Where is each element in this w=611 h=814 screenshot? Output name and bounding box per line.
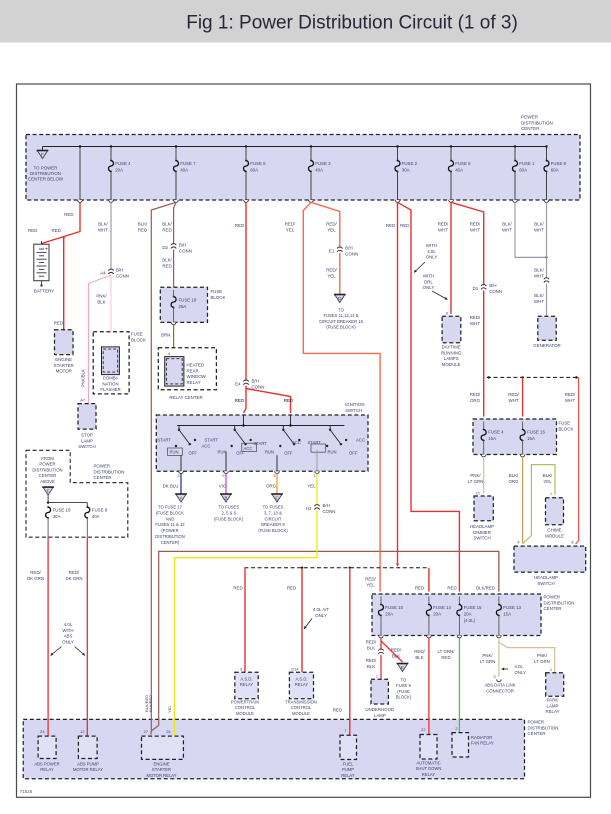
svg-text:DAYTIME: DAYTIME <box>442 345 461 350</box>
wire PNK/LT GRN branch to park lamp relay <box>499 642 555 672</box>
svg-text:AUTOMATIC: AUTOMATIC <box>416 761 440 766</box>
svg-text:25A: 25A <box>179 304 187 309</box>
svg-text:YEL: YEL <box>366 582 375 587</box>
to power distribution center below connector triangle <box>37 147 49 159</box>
svg-text:MODULE: MODULE <box>545 533 564 538</box>
svg-text:FUEL: FUEL <box>343 762 354 767</box>
svg-text:BLK/: BLK/ <box>534 268 544 273</box>
fuse 4 15A <box>481 422 504 457</box>
svg-text:OFF: OFF <box>284 451 293 456</box>
svg-text:MOTOR RELAY: MOTOR RELAY <box>146 773 176 778</box>
wire RED/ORG below D1 to fuse 4 (fuse block) <box>470 290 484 416</box>
wire RED/YEL from fuse 3 to fuse 10 <box>285 202 380 591</box>
svg-text:60A: 60A <box>519 167 527 172</box>
svg-text:BLK: BLK <box>97 299 105 304</box>
svg-text:21: 21 <box>476 491 480 496</box>
svg-text:CENTER: CENTER <box>528 731 546 736</box>
svg-text:OFF: OFF <box>349 451 358 456</box>
note 4.0L A/T ONLY <box>304 607 329 629</box>
svg-text:BLK: BLK <box>415 655 423 660</box>
svg-text:9: 9 <box>222 473 224 478</box>
wire RED to engine starter motor <box>54 238 64 330</box>
svg-text:WHT: WHT <box>438 227 448 232</box>
svg-text:7: 7 <box>344 728 346 733</box>
fuse FUSE 5 40A (power distribution center) <box>449 145 472 202</box>
drawing number 71525 <box>20 789 33 794</box>
svg-text:FUSE 15: FUSE 15 <box>527 430 545 435</box>
headlamp dimmer switch <box>470 491 494 541</box>
wire YEL to engine starter motor relay <box>167 511 317 736</box>
svg-text:FUSE 3: FUSE 3 <box>315 161 331 166</box>
svg-text:(POWER: (POWER <box>161 528 178 533</box>
svg-text:2: 2 <box>177 473 179 478</box>
svg-text:YEL: YEL <box>286 227 295 232</box>
wire PNK/BLK to stop lamp switch <box>81 275 112 404</box>
wire BLK/RED branch from relay pin 27 to fuse 13 <box>148 551 499 731</box>
connector triangle B <box>214 494 244 521</box>
svg-text:DIMMER: DIMMER <box>473 530 491 535</box>
svg-text:BLK: BLK <box>367 645 375 650</box>
wire RED/BLK below connector <box>366 655 381 679</box>
svg-text:4.0L: 4.0L <box>515 664 524 669</box>
svg-text:F: F <box>41 152 44 157</box>
svg-text:DISTRIBUTION: DISTRIBUTION <box>32 467 62 472</box>
svg-text:SWITCH: SWITCH <box>537 581 554 586</box>
fuel pump relay <box>340 728 357 778</box>
svg-text:FUSES 11 & 12: FUSES 11 & 12 <box>155 522 185 527</box>
svg-text:4.0L: 4.0L <box>64 622 73 627</box>
svg-text:DK GRN: DK GRN <box>65 576 82 581</box>
wire RED fuse 2 (4.0L) to fuse 15 <box>398 202 460 591</box>
wire RED battery feed <box>28 202 80 243</box>
svg-text:B/H: B/H <box>489 283 496 288</box>
svg-text:RED: RED <box>441 655 450 660</box>
svg-text:WITH: WITH <box>62 628 73 633</box>
svg-text:C: C <box>275 495 278 500</box>
svg-text:COMBI-: COMBI- <box>103 376 119 381</box>
svg-text:LT GRN: LT GRN <box>468 479 484 484</box>
fuse 18 25A <box>171 290 197 325</box>
svg-text:SWITCH: SWITCH <box>78 444 95 449</box>
connector triangle F from PDC above <box>42 487 54 504</box>
note WITH DRL ONLY <box>423 274 448 300</box>
svg-text:RED: RED <box>386 223 395 228</box>
automatic shut down relay <box>416 727 442 777</box>
svg-text:A.S.D.: A.S.D. <box>295 677 307 682</box>
wire BLK/YEL headlamp switch to chime module <box>523 465 555 544</box>
svg-text:OFF: OFF <box>189 451 198 456</box>
svg-text:D1: D1 <box>473 286 479 291</box>
park lamp relay <box>545 667 563 714</box>
headlamp switch <box>514 540 586 586</box>
svg-text:FUSE: FUSE <box>211 289 223 294</box>
svg-text:UNDERHOOD: UNDERHOOD <box>365 707 394 712</box>
svg-text:RED/: RED/ <box>285 222 296 227</box>
svg-text:RED/: RED/ <box>30 570 41 575</box>
dashed distribution bus <box>244 567 429 569</box>
chime module <box>545 492 564 539</box>
svg-text:B: B <box>225 495 228 500</box>
svg-text:RED: RED <box>235 398 244 403</box>
fuse block (fuse 18) box <box>160 287 225 322</box>
svg-text:CENTER: CENTER <box>521 126 540 131</box>
svg-text:LT GRN: LT GRN <box>480 659 496 664</box>
svg-text:CONTROL: CONTROL <box>235 705 256 710</box>
relay center box <box>158 348 216 400</box>
svg-text:BLK/: BLK/ <box>98 222 108 227</box>
svg-text:PNK/: PNK/ <box>482 653 493 658</box>
svg-text:B/H: B/H <box>179 243 186 248</box>
svg-text:FUSE 4: FUSE 4 <box>115 161 131 166</box>
svg-text:40A: 40A <box>315 167 323 172</box>
svg-text:15A: 15A <box>527 436 535 441</box>
underhood lamp <box>365 674 394 718</box>
svg-text:D14: D14 <box>291 667 299 672</box>
svg-text:60A: 60A <box>551 167 559 172</box>
connector triangle C <box>258 494 288 533</box>
svg-text:FUSE 9: FUSE 9 <box>396 683 411 688</box>
svg-text:(FUSE: (FUSE <box>397 689 410 694</box>
svg-text:WITH: WITH <box>426 243 437 248</box>
svg-text:SWITCH: SWITCH <box>345 408 362 413</box>
svg-text:WINDOW: WINDOW <box>187 374 207 379</box>
svg-text:FUSE 8: FUSE 8 <box>92 508 108 513</box>
svg-text:BRN: BRN <box>161 333 170 338</box>
ignition switch contact set 1 <box>158 426 211 472</box>
fuse FUSE 3 40A (power distribution center) <box>309 145 332 202</box>
svg-text:DISTRIBUTION: DISTRIBUTION <box>528 725 559 730</box>
svg-text:RED: RED <box>233 586 242 591</box>
svg-text:STARTER: STARTER <box>54 363 74 368</box>
svg-text:MOTOR: MOTOR <box>56 369 72 374</box>
svg-text:40A: 40A <box>180 167 188 172</box>
wire RED fuse 2 to dashed bus <box>386 202 410 566</box>
wire RED to ignition pin 4 <box>235 386 246 413</box>
wire RED/DK GRN to ABS pump motor relay <box>65 537 87 736</box>
svg-text:1: 1 <box>313 473 315 478</box>
svg-text:FUSE 2: FUSE 2 <box>402 161 418 166</box>
svg-text:BLK: BLK <box>392 653 400 658</box>
svg-text:FUSE 1: FUSE 1 <box>519 161 535 166</box>
svg-text:20A: 20A <box>464 611 472 616</box>
svg-text:RED/: RED/ <box>365 577 376 582</box>
svg-text:BLK: BLK <box>367 664 375 669</box>
svg-text:GENERATOR: GENERATOR <box>533 343 560 348</box>
svg-text:7: 7 <box>550 492 552 497</box>
wire RED to fuel pump relay <box>333 568 350 736</box>
svg-text:PNK/: PNK/ <box>96 294 107 299</box>
svg-text:RELAY: RELAY <box>295 682 309 687</box>
svg-text:RUN: RUN <box>265 450 274 455</box>
svg-text:WHT: WHT <box>534 227 544 232</box>
svg-text:Fig 1: Power Distribution Circ: Fig 1: Power Distribution Circuit (1 of … <box>186 13 518 34</box>
dashed tap wire to headlamp switch feed <box>487 376 579 379</box>
svg-text:30A: 30A <box>402 167 410 172</box>
svg-text:3, 7, 10 &: 3, 7, 10 & <box>264 510 282 515</box>
svg-text:RED: RED <box>52 228 61 233</box>
svg-text:FUSE 9: FUSE 9 <box>551 161 567 166</box>
ignition switch label <box>345 402 365 413</box>
svg-text:ENGINE: ENGINE <box>153 762 169 767</box>
svg-text:BLOCK): BLOCK) <box>396 695 412 700</box>
wire PNK/BLK to combination flasher <box>110 275 112 347</box>
wire RED from fuse 6 to ignition switch <box>235 202 246 380</box>
svg-text:RED: RED <box>162 227 171 232</box>
ignition switch contact set 3 <box>254 426 301 472</box>
wire RED/DK GRN to ABS power relay <box>27 537 48 736</box>
connector triangle A <box>155 494 187 545</box>
svg-text:RUN: RUN <box>170 450 179 455</box>
svg-text:H2: H2 <box>306 506 312 511</box>
svg-text:RED: RED <box>138 227 147 232</box>
svg-text:SWITCH: SWITCH <box>473 536 490 541</box>
svg-text:DK BLU: DK BLU <box>163 484 179 489</box>
svg-text:PNK/BLK: PNK/BLK <box>81 369 86 387</box>
svg-text:YEL: YEL <box>307 484 316 489</box>
fuse FUSE 14 20A (right PDC) <box>426 597 451 638</box>
power distribution center box (top) <box>26 135 580 201</box>
svg-text:CONN: CONN <box>323 509 336 514</box>
svg-text:RELAY: RELAY <box>422 772 436 777</box>
svg-text:BLK/: BLK/ <box>502 222 512 227</box>
svg-text:RED: RED <box>235 223 244 228</box>
svg-text:3: 3 <box>240 667 242 672</box>
wire RED/WHT to fuse 15 (fuse block) <box>508 377 522 416</box>
svg-text:BLOCK: BLOCK <box>211 295 226 300</box>
svg-text:4.0L: 4.0L <box>427 249 436 254</box>
svg-text:PNK/: PNK/ <box>470 473 481 478</box>
svg-text:RED/: RED/ <box>438 222 449 227</box>
svg-text:BLK/: BLK/ <box>543 473 553 478</box>
svg-text:BLK/: BLK/ <box>138 222 148 227</box>
radiator fan relay <box>452 726 494 757</box>
svg-text:ACC: ACC <box>202 444 211 449</box>
svg-text:DK GRN: DK GRN <box>27 576 44 581</box>
svg-text:CENTER: CENTER <box>94 475 112 480</box>
svg-text:ENGINE: ENGINE <box>55 357 72 362</box>
svg-text:REAR: REAR <box>187 368 199 373</box>
to power distribution center below text <box>28 166 64 182</box>
generator <box>533 316 560 348</box>
svg-text:PARK: PARK <box>547 698 559 703</box>
svg-text:A.S.D.: A.S.D. <box>240 677 252 682</box>
svg-text:ONLY: ONLY <box>426 255 438 260</box>
svg-text:RED/: RED/ <box>326 222 337 227</box>
connector triangle E to fuse 9 <box>396 664 412 700</box>
combination flasher <box>100 347 120 392</box>
fuse FUSE 6 60A (power distribution center) <box>244 145 267 202</box>
svg-text:2: 2 <box>455 726 457 731</box>
node: main bus in power distribution center <box>43 146 547 148</box>
svg-text:RED/: RED/ <box>565 392 576 397</box>
svg-text:20A: 20A <box>115 167 123 172</box>
svg-text:RED/: RED/ <box>470 392 481 397</box>
stop lamp switch <box>78 398 96 450</box>
svg-text:AND: AND <box>166 516 175 521</box>
svg-text:FUSE: FUSE <box>559 421 571 426</box>
svg-text:SHUT DOWN: SHUT DOWN <box>416 766 442 771</box>
svg-text:RUNNING: RUNNING <box>441 350 462 355</box>
svg-text:YEL: YEL <box>167 705 172 713</box>
title bar <box>0 0 611 43</box>
svg-text:5: 5 <box>273 473 275 478</box>
svg-text:DISTRIBUTION: DISTRIBUTION <box>30 171 61 176</box>
wire BLK/RED below D2 <box>162 250 173 288</box>
svg-text:DRL: DRL <box>424 279 433 284</box>
svg-text:60A: 60A <box>250 167 258 172</box>
svg-text:FUSE 13: FUSE 13 <box>503 605 521 610</box>
svg-text:RED/: RED/ <box>326 268 337 273</box>
svg-text:22: 22 <box>421 727 425 732</box>
wire BLK/WHT from fuse 1 <box>502 202 548 258</box>
svg-text:STOP: STOP <box>81 433 93 438</box>
svg-text:CENTER: CENTER <box>39 473 57 478</box>
A.S.D. relay (transmission control module) <box>285 667 317 716</box>
svg-text:FUSE: FUSE <box>131 332 143 337</box>
svg-text:RED: RED <box>415 586 424 591</box>
svg-text:71525: 71525 <box>20 789 33 794</box>
svg-text:B/H: B/H <box>116 268 123 273</box>
svg-text:FUSE 18: FUSE 18 <box>179 298 197 303</box>
svg-text:LAMP: LAMP <box>374 713 386 718</box>
svg-text:YEL: YEL <box>327 227 336 232</box>
svg-text:B/H: B/H <box>323 503 330 508</box>
svg-text:FUSE 7: FUSE 7 <box>180 161 196 166</box>
wire RED/BLK to underhood lamp <box>366 638 381 651</box>
svg-text:+: + <box>45 247 48 253</box>
svg-text:D2: D2 <box>162 245 168 250</box>
svg-text:START: START <box>254 441 268 446</box>
daytime running lamps module <box>441 311 462 367</box>
svg-text:CONN: CONN <box>252 384 265 389</box>
svg-text:LAMPS: LAMPS <box>444 356 459 361</box>
svg-text:TO FUSE 17: TO FUSE 17 <box>158 505 183 510</box>
svg-text:BLK/: BLK/ <box>509 473 519 478</box>
svg-text:POWER: POWER <box>528 720 545 725</box>
engine starter motor <box>54 330 74 374</box>
connector E1 B/H CONN <box>329 246 358 257</box>
svg-text:MODULE: MODULE <box>292 711 310 716</box>
wire RED to fuse 14 <box>415 568 429 592</box>
power distribution center label (top) <box>521 115 553 132</box>
svg-text:MOTOR RELAY: MOTOR RELAY <box>73 767 103 772</box>
wire BLK/ORG to headlamp switch <box>508 457 522 544</box>
svg-text:RED/: RED/ <box>391 648 402 653</box>
svg-text:FROM: FROM <box>41 456 54 461</box>
svg-text:ACC: ACC <box>356 438 365 443</box>
svg-text:B/H: B/H <box>252 379 259 384</box>
wire battery feed drop inside PDC <box>78 145 83 202</box>
fuse FUSE 15 20A (right PDC) <box>457 597 482 638</box>
ignition switch box <box>156 415 368 471</box>
svg-text:VIO: VIO <box>219 484 227 489</box>
svg-text:DISTRIBUTION: DISTRIBUTION <box>521 120 553 125</box>
svg-text:CENTER BELOW: CENTER BELOW <box>28 177 64 182</box>
svg-text:POWER: POWER <box>94 464 111 469</box>
ABS pump motor relay <box>73 729 103 772</box>
power distribution center box (left) <box>26 450 128 537</box>
svg-text:BLOCK: BLOCK <box>131 337 146 342</box>
wire BLK/WHT from fuse 9 <box>534 202 547 278</box>
svg-text:CIRCUIT: CIRCUIT <box>265 516 282 521</box>
svg-text:RELAY: RELAY <box>240 682 254 687</box>
ignition switch internal bus <box>177 415 344 427</box>
svg-text:BLK/RED: BLK/RED <box>476 586 495 591</box>
svg-text:RED/: RED/ <box>366 658 377 663</box>
svg-text:DISTRIBUTION: DISTRIBUTION <box>544 600 575 605</box>
svg-text:ONLY: ONLY <box>315 613 327 618</box>
ignition switch contact set 2 <box>205 426 257 472</box>
wire RED to A.S.D. relay (TCM) <box>287 568 302 673</box>
svg-text:RED/: RED/ <box>508 392 519 397</box>
svg-text:RED/: RED/ <box>366 640 377 645</box>
svg-text:ABS POWER: ABS POWER <box>34 762 59 767</box>
svg-text:WHT: WHT <box>534 273 544 278</box>
svg-text:RED/: RED/ <box>414 649 425 654</box>
svg-text:ABOVE: ABOVE <box>40 479 55 484</box>
svg-text:RED/: RED/ <box>69 570 80 575</box>
svg-text:RED: RED <box>447 586 456 591</box>
svg-text:LT GRN/: LT GRN/ <box>438 649 456 654</box>
svg-text:(FUSE BLOCK): (FUSE BLOCK) <box>258 528 288 533</box>
svg-text:RED: RED <box>284 398 293 403</box>
svg-text:TO FUSES: TO FUSES <box>218 505 239 510</box>
connector on underhood lamp feed <box>378 649 383 654</box>
fuse FUSE 1 60A (power distribution center) <box>513 145 536 202</box>
svg-text:ABS PUMP: ABS PUMP <box>77 762 99 767</box>
svg-text:TRANSMISSION: TRANSMISSION <box>285 700 317 705</box>
svg-text:27: 27 <box>144 729 148 734</box>
svg-text:40A: 40A <box>455 167 463 172</box>
svg-text:FUSES 11,13,14 &: FUSES 11,13,14 & <box>323 313 358 318</box>
svg-text:HEADLAMP: HEADLAMP <box>534 575 558 580</box>
svg-text:ORG: ORG <box>470 398 481 403</box>
A.S.D. relay (powertrain control module) <box>231 667 259 716</box>
svg-text:RED: RED <box>400 223 409 228</box>
svg-text:TO POWER: TO POWER <box>34 166 58 171</box>
svg-text:CONNECTOR: CONNECTOR <box>486 688 514 693</box>
svg-text:YEL: YEL <box>543 479 552 484</box>
connector on generator feed <box>544 278 549 283</box>
wire BLK/RED long run to engine starter motor relay <box>138 202 176 734</box>
svg-text:ABS: ABS <box>64 634 73 639</box>
power distribution center label (left) <box>94 464 125 481</box>
svg-text:(FUSE BLOCK): (FUSE BLOCK) <box>214 516 244 521</box>
svg-text:POWER: POWER <box>544 595 561 600</box>
svg-text:8: 8 <box>571 540 573 545</box>
wire LT GRN/RED to radiator fan relay <box>438 638 460 733</box>
svg-text:PNK/: PNK/ <box>537 653 548 658</box>
svg-text:4.0L A/T: 4.0L A/T <box>313 607 330 612</box>
svg-text:LT GRN: LT GRN <box>534 659 550 664</box>
svg-text:PUMP: PUMP <box>342 767 354 772</box>
svg-text:RED: RED <box>333 708 342 713</box>
svg-text:POWER: POWER <box>521 115 539 120</box>
svg-text:(4.0L): (4.0L) <box>464 618 476 623</box>
svg-text:RELAY: RELAY <box>341 773 355 778</box>
svg-text:A: A <box>180 495 183 500</box>
battery B1 <box>34 241 54 294</box>
svg-text:BATTERY: BATTERY <box>34 289 54 294</box>
svg-text:ACC: ACC <box>244 446 253 451</box>
wire BLK/RED into fuse 13 (input) <box>498 551 500 591</box>
svg-text:LAMP: LAMP <box>547 703 559 708</box>
svg-text:RED: RED <box>28 228 37 233</box>
svg-text:HEADLAMP: HEADLAMP <box>470 524 494 529</box>
svg-text:ONLY: ONLY <box>423 285 435 290</box>
wire RED/WHT to headlamp switch pin 8 <box>565 377 579 544</box>
svg-text:YEL: YEL <box>327 273 336 278</box>
